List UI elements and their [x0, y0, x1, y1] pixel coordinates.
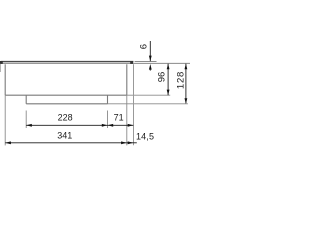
flange top extension line for dim 6: [135, 61, 157, 63]
extension line x=5.2 (341 left): [4, 95, 6, 145]
dim 71 left arrow: [108, 124, 114, 127]
lower box bottom: [26, 103, 107, 105]
lower box left wall: [25, 95, 27, 104]
dim 14,5 line: [127, 142, 137, 144]
extension line x=26.2 (228 left): [25, 111, 27, 129]
dim 341 right arrow: [121, 141, 127, 144]
svg-text:96: 96: [156, 72, 167, 83]
svg-text:71: 71: [114, 113, 124, 123]
main body right wall: [126, 64, 128, 95]
dim 6 upper arrow (down): [149, 56, 152, 62]
svg-text:6: 6: [138, 44, 149, 49]
dim 96 bottom arrow (down): [167, 90, 170, 96]
svg-text:14,5: 14,5: [136, 132, 154, 142]
dim 6 lower tail: [149, 69, 151, 71]
main body bottom: [5, 94, 127, 96]
lower box right wall: [107, 95, 109, 104]
dim 71 right arrow: [128, 124, 134, 127]
svg-text:341: 341: [57, 130, 72, 140]
dim 341 left arrow: [5, 141, 11, 144]
dim 71 line: [108, 124, 134, 126]
extension line y=95.2 right (for dim 96): [127, 94, 170, 96]
dim 128 bottom arrow (down): [185, 98, 188, 104]
dim 228 left arrow: [26, 124, 32, 127]
svg-text:228: 228: [58, 113, 73, 123]
dim 228 right arrow: [102, 124, 108, 127]
dim 96 line: [167, 64, 169, 95]
dim 14,5 right arrow: [128, 141, 134, 144]
extension line x=126.8 (341 right / 14,5 left): [126, 95, 128, 145]
main body left wall: [4, 64, 6, 95]
extension line x=133.4 (flange end, 71 right / 14,5 right): [133, 64, 135, 145]
left edge small lip: [0, 64, 2, 72]
dim 128 top arrow (up): [185, 64, 188, 70]
dim 96 top arrow (up): [167, 64, 170, 70]
extension line y=103.3 right (for dim 128): [108, 103, 188, 105]
dim 6 lower arrow (up): [149, 64, 152, 70]
extension line x=107.5 (228 right / 71 left): [107, 111, 109, 129]
dim 128 line: [185, 64, 187, 104]
worktop surface line (right of flange): [133, 62, 190, 64]
dim 341 line: [5, 142, 127, 144]
dim 6 upper leader line: [149, 41, 151, 61]
dim 228 line: [26, 124, 107, 126]
svg-text:128: 128: [175, 71, 186, 89]
flange (appliance top plate): [0, 61, 133, 64]
